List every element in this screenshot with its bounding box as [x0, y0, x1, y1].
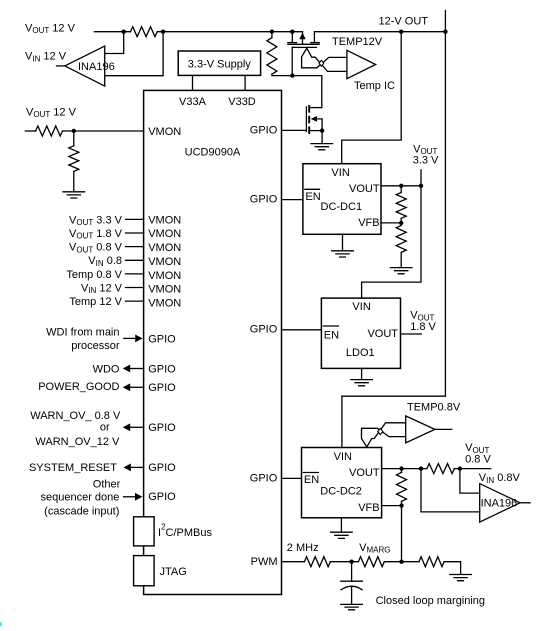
ground DC-DC1	[342, 234, 344, 250]
wire DC-DC1 VOUT 3.3V	[381, 185, 421, 187]
svg-text:VIN 0.8: VIN 0.8	[88, 255, 122, 268]
svg-text:GPIO: GPIO	[148, 363, 176, 375]
wire INA196 input+	[105, 32, 124, 54]
op-amp Temp IC (12V)	[347, 50, 376, 78]
svg-text:UCD9090A: UCD9090A	[185, 147, 241, 159]
svg-text:EN: EN	[324, 329, 339, 341]
pin VMON VOUT 1.8	[126, 232, 144, 234]
svg-text:V33D: V33D	[228, 96, 256, 108]
svg-text:WARN_OV_12 V: WARN_OV_12 V	[35, 436, 120, 448]
svg-text:VIN 0.8V: VIN 0.8V	[479, 472, 521, 485]
svg-text:VOUT: VOUT	[349, 467, 380, 479]
ground DC-DC2	[340, 518, 342, 532]
ground NMOS source	[311, 144, 333, 150]
svg-text:VMON: VMON	[148, 242, 181, 254]
node VFB2	[399, 503, 403, 507]
svg-text:Other: Other	[93, 478, 121, 490]
svg-text:TEMP0.8V: TEMP0.8V	[407, 402, 461, 414]
wire VFB2 to VMARG	[401, 506, 403, 562]
svg-text:TEMP12V: TEMP12V	[332, 36, 383, 48]
resistor gate pull-up	[271, 32, 273, 38]
svg-text:VMON: VMON	[148, 214, 181, 226]
wire 0.8V out	[454, 468, 490, 470]
wire V33A pin	[192, 75, 194, 90]
node VMARG	[399, 560, 403, 564]
svg-text:or: or	[100, 421, 110, 433]
U1 UCD9090A main block	[144, 90, 282, 594]
wire DC-DC2 VFB	[382, 505, 402, 507]
capacitor filter	[351, 562, 353, 582]
wire DC-DC2 VOUT 0.8V	[382, 468, 427, 470]
wire PWM output	[282, 561, 305, 563]
node shunt right	[161, 30, 165, 34]
svg-text:INA196: INA196	[481, 498, 518, 510]
wire LDO1 VOUT 1.8V stub	[401, 333, 422, 335]
svg-text:1.8 V: 1.8 V	[410, 321, 436, 333]
wire shunt left to INA in-	[421, 469, 480, 512]
svg-text:GPIO: GPIO	[250, 193, 278, 205]
wire to VMARG node	[384, 561, 419, 563]
node VFB	[399, 221, 403, 225]
svg-text:WARN_OV_ 0.8 V: WARN_OV_ 0.8 V	[30, 410, 121, 422]
svg-text:VMON: VMON	[148, 298, 181, 310]
svg-text:GPIO: GPIO	[148, 333, 176, 345]
node shunt right 0.8V	[458, 466, 462, 470]
block JTAG interface	[134, 556, 155, 586]
resistor divider bottom 12V	[73, 131, 75, 146]
resistor VMARG	[358, 557, 384, 567]
svg-text:DC-DC1: DC-DC1	[321, 201, 363, 213]
resistor DC-DC1 FB bottom	[396, 226, 406, 253]
wire shunt right to INA in+	[460, 469, 480, 494]
ground LDO1	[361, 368, 363, 379]
block I2C/PMBus interface	[134, 517, 155, 546]
svg-text:VMON: VMON	[148, 256, 181, 268]
node VOUT-R1	[399, 184, 403, 188]
page artifact cyan mark	[0, 622, 2, 627]
svg-text:GPIO: GPIO	[148, 491, 176, 503]
svg-text:VOUT: VOUT	[367, 328, 398, 340]
svg-text:GPIO: GPIO	[250, 124, 278, 136]
svg-text:VMON: VMON	[148, 270, 181, 282]
temp sensor diode with twisted pair (DC-DC2)	[362, 428, 406, 447]
svg-text:EN: EN	[304, 474, 319, 486]
block DC-DC2	[302, 448, 382, 518]
svg-text:2 MHz: 2 MHz	[287, 542, 319, 554]
svg-text:VFB: VFB	[358, 217, 379, 229]
svg-text:INA196: INA196	[78, 61, 115, 73]
svg-text:VFB: VFB	[358, 502, 379, 514]
ground DC-DC1 FB	[390, 268, 412, 274]
svg-text:WDO: WDO	[93, 363, 120, 375]
wire DC-DC1 VFB	[381, 222, 401, 224]
svg-text:WDI from main: WDI from main	[46, 326, 119, 338]
wire 12V down to DC-DC1 VIN	[342, 32, 402, 164]
pin VMON VIN 12	[126, 287, 144, 289]
block 3.3-V Supply	[178, 51, 260, 75]
wire to cap node	[330, 561, 358, 563]
node rail DC-DC1 feed	[399, 30, 403, 34]
block LDO1	[321, 298, 400, 368]
node divider tap	[72, 129, 76, 133]
resistor VMARG to ground	[419, 557, 444, 567]
svg-text:VIN: VIN	[334, 451, 352, 463]
svg-text:Temp 12 V: Temp 12 V	[69, 296, 122, 308]
svg-text:GPIO: GPIO	[148, 422, 176, 434]
wire INA196 input-	[105, 32, 163, 76]
pin VMON VOUT 3.3	[126, 218, 144, 220]
resistor divider top 12V	[25, 130, 35, 132]
svg-text:POWER_GOOD: POWER_GOOD	[38, 381, 119, 393]
svg-text:(cascade input): (cascade input)	[44, 506, 119, 518]
node rail end 12-V OUT	[443, 30, 447, 34]
op-amp INA196 (0.8V current monitor)	[480, 484, 520, 522]
resistor 0.8V shunt	[427, 464, 454, 474]
node VOUT2 shunt left	[419, 466, 423, 470]
op-amp TEMP0.8V	[406, 416, 435, 443]
block DC-DC1	[303, 164, 381, 235]
node filter cap	[349, 560, 353, 564]
wire to VMON pin	[63, 130, 144, 132]
svg-text:Closed loop margining: Closed loop margining	[376, 595, 485, 607]
svg-text:sequencer done: sequencer done	[40, 492, 119, 504]
svg-text:3.3-V Supply: 3.3-V Supply	[188, 58, 251, 70]
resistor DC-DC2 FB top	[401, 469, 403, 473]
ground margining	[450, 575, 472, 581]
svg-text:JTAG: JTAG	[160, 566, 187, 578]
wire to ground	[444, 562, 461, 575]
pin VMON Temp 0.8	[126, 273, 144, 275]
svg-text:Temp IC: Temp IC	[354, 80, 395, 92]
svg-text:GPIO: GPIO	[250, 324, 278, 336]
svg-text:DC-DC2: DC-DC2	[320, 485, 362, 497]
net 12V top rail	[94, 31, 130, 33]
node VOUT-LDO branch	[419, 184, 423, 188]
svg-text:VMON: VMON	[148, 228, 181, 240]
wire gate net	[272, 74, 322, 76]
svg-text:VIN 12 V: VIN 12 V	[25, 51, 67, 64]
resistor PWM filter	[304, 557, 330, 567]
op-amp INA196 (12V current monitor)	[65, 46, 105, 86]
ground filter cap	[341, 604, 363, 609]
transistor Q2 NMOS gate driver	[321, 76, 323, 108]
pin VMON Temp 12	[126, 300, 144, 302]
svg-text:GPIO: GPIO	[250, 473, 278, 485]
wire V33D pin	[244, 75, 246, 90]
svg-text:VIN: VIN	[331, 167, 349, 179]
svg-text:GPIO: GPIO	[148, 382, 176, 394]
svg-text:VIN: VIN	[352, 301, 370, 313]
node rail to gate resistor	[270, 30, 274, 34]
node shunt left	[122, 30, 126, 34]
resistor DC-DC1 FB top	[400, 186, 402, 193]
svg-text:VIN 12 V: VIN 12 V	[81, 282, 123, 295]
svg-text:EN: EN	[305, 191, 320, 203]
pin VMON VOUT 0.8	[126, 246, 144, 248]
wire 12V down to DC-DC2	[342, 32, 446, 448]
temp sensor diode with twisted pair (12V FET)	[302, 48, 347, 68]
svg-text:PWM: PWM	[251, 556, 278, 568]
svg-text:processor: processor	[71, 340, 120, 352]
pin VMON VIN 0.8	[126, 259, 144, 261]
resistor R shunt 12V	[131, 27, 158, 37]
svg-text:LDO1: LDO1	[346, 347, 375, 359]
node VOUT2-R	[399, 466, 403, 470]
svg-text:VOUT: VOUT	[349, 183, 380, 195]
ground divider	[63, 192, 85, 198]
svg-text:3.3 V: 3.3 V	[413, 155, 439, 167]
svg-text:VMON: VMON	[148, 126, 181, 138]
node gate net junction	[290, 73, 294, 77]
svg-text:0.8 V: 0.8 V	[465, 454, 491, 466]
transistor Q1 PMOS high-side switch	[290, 30, 294, 34]
wire INA196 output	[57, 65, 65, 67]
svg-text:12-V OUT: 12-V OUT	[379, 15, 429, 27]
svg-text:VMON: VMON	[148, 284, 181, 296]
wire 3.3V to LDO1 VIN	[420, 170, 422, 186]
svg-text:Temp 0.8 V: Temp 0.8 V	[66, 269, 122, 281]
svg-text:V33A: V33A	[179, 96, 207, 108]
svg-text:SYSTEM_RESET: SYSTEM_RESET	[29, 462, 117, 474]
svg-text:GPIO: GPIO	[148, 462, 176, 474]
wire 12-V OUT stub up	[444, 11, 446, 32]
